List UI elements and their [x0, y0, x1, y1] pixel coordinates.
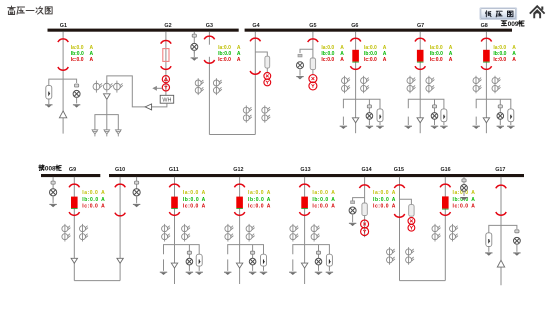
surge arrester G1 [46, 85, 52, 99]
svg-text:G3: G3 [206, 23, 213, 29]
voltage transformer G14 circle 1 [361, 220, 369, 228]
breaker G12 upper contact [234, 184, 244, 187]
surge arrester branch [508, 109, 514, 122]
svg-text:G5: G5 [309, 23, 316, 29]
svg-text:A: A [383, 57, 387, 63]
wire load branch bar [476, 99, 511, 109]
open-triangle contact on feeder [417, 118, 423, 123]
svg-text:G12: G12 [233, 167, 243, 173]
label 接008柜 [39, 165, 44, 171]
PT pair G11 left [162, 224, 171, 242]
wire load branch bar [228, 245, 264, 255]
feeder G2 wire [165, 32, 167, 96]
block symbol G14 branch [351, 201, 355, 204]
svg-text:Ic:0.0: Ic:0.0 [71, 57, 84, 63]
breaker G8 lower contact [481, 66, 491, 69]
label 至009柜 [501, 21, 506, 26]
indicator lamp branch [499, 99, 501, 125]
indicator lamp G1 [73, 90, 80, 97]
feeder G10 wire [119, 177, 121, 281]
svg-text:Ic:0.0: Ic:0.0 [312, 204, 328, 210]
svg-text:G4: G4 [252, 23, 259, 29]
disconnect stub with earth arrow [227, 259, 229, 271]
open triangle below PT group [104, 94, 111, 100]
svg-text:Ic:0.0: Ic:0.0 [218, 57, 231, 63]
svg-text:A: A [340, 57, 344, 63]
breaker G13 lower contact [299, 212, 309, 215]
PT pair G8 right [492, 76, 501, 93]
breaker G10 lower contact [115, 213, 125, 216]
G17 branch bar wire [489, 225, 517, 232]
svg-text:Ia:0.0: Ia:0.0 [493, 45, 506, 51]
svg-text:A: A [340, 45, 344, 51]
PT pair G13 right [311, 224, 320, 242]
svg-text:A: A [512, 57, 516, 63]
disconnect stub with earth arrow [475, 117, 477, 125]
svg-text:A: A [331, 204, 335, 210]
svg-text:A: A [471, 190, 475, 196]
svg-text:G7: G7 [417, 23, 424, 29]
PT pair G16 left [432, 224, 441, 242]
feeder G3 wire upper [208, 32, 210, 45]
svg-text:G6: G6 [351, 23, 358, 29]
breaker G6 closed element [352, 50, 359, 62]
voltage transformer G5 circle 1 [309, 75, 317, 83]
surge arrester branch [326, 254, 332, 266]
bus lamp branch left of G11 wire [136, 177, 138, 200]
fuse G14 [362, 203, 367, 216]
ground G17 lamp [516, 244, 518, 252]
svg-text:Ia:0.0: Ia:0.0 [321, 45, 334, 51]
bus lamp branch between G16 G17 wire [463, 177, 465, 196]
indicator lamp bus branch [191, 43, 198, 50]
feeder G3 wire lower [208, 57, 210, 135]
svg-text:A: A [331, 197, 335, 203]
voltage transformer G4 circle 2 [264, 79, 271, 86]
open-triangle contact on feeder [483, 118, 489, 123]
wire WH to PT group [107, 76, 167, 107]
voltage transformer G15 circle 1 [408, 218, 415, 225]
breaker G9 upper contact [69, 184, 79, 187]
svg-text:A: A [449, 45, 453, 51]
busbar top segment 2 [245, 29, 512, 32]
surge arrester G17 [486, 233, 492, 247]
svg-text:A: A [202, 197, 206, 203]
svg-text:A: A [267, 190, 271, 196]
feeder G1 wire [62, 32, 64, 134]
breaker G9 lower contact [69, 212, 79, 215]
svg-text:Ic:0.0: Ic:0.0 [430, 57, 443, 63]
open-triangle contact on feeder [236, 263, 242, 268]
svg-text:009: 009 [508, 21, 519, 28]
PT pair G7 left [407, 76, 416, 93]
PT pair G15 left [387, 247, 396, 265]
svg-text:Ib:0.0: Ib:0.0 [321, 51, 334, 57]
ground G1 arrester [48, 99, 50, 104]
PT pair G15 right [406, 247, 415, 265]
svg-text:Ia:0.0: Ia:0.0 [218, 45, 231, 51]
svg-text:G15: G15 [394, 167, 404, 173]
svg-text:Ia:0.0: Ia:0.0 [430, 45, 443, 51]
feeder G4 wire [254, 32, 256, 135]
surge arrester array c [116, 130, 122, 137]
surge arrester branch [377, 109, 383, 122]
G1 branch bar wire [49, 79, 77, 85]
indicator lamp branch [252, 245, 254, 271]
fuse G15 [409, 205, 414, 217]
indicator lamp G17 [514, 237, 521, 244]
breaker G2 open element [163, 49, 169, 62]
feeder G15 wire [399, 177, 401, 281]
indicator lamp branch [434, 99, 436, 125]
breaker G2 upper contact [161, 40, 171, 43]
ground G1 lamp [76, 97, 78, 103]
breaker G17 lower contact [496, 212, 506, 215]
svg-text:WH: WH [162, 98, 171, 104]
open-triangle contact on feeder [171, 263, 177, 268]
svg-text:Ic:0.0: Ic:0.0 [493, 57, 506, 63]
PT circle G2-b [103, 81, 112, 93]
indicator lamp branch [318, 245, 320, 271]
feeder G5 wire [312, 32, 314, 76]
svg-text:A: A [383, 45, 387, 51]
metering transformer G2 circle 1 [162, 76, 169, 83]
svg-text:008: 008 [45, 166, 56, 173]
ground G11 branch [136, 196, 138, 203]
breaker G4 upper contact [250, 38, 260, 41]
PT pair G3 left [195, 78, 204, 95]
disconnect dots G1 lamp branch [75, 84, 79, 87]
feeder G12 wire [239, 177, 241, 284]
feeder G17 wire [500, 177, 502, 285]
svg-text:Ia:0.0: Ia:0.0 [183, 190, 199, 196]
svg-text:Ia:0.0: Ia:0.0 [248, 190, 264, 196]
svg-text:A: A [90, 51, 94, 57]
surge arrester branch [196, 254, 202, 266]
svg-text:Ib:0.0: Ib:0.0 [312, 197, 328, 203]
breaker G7 lower contact [415, 66, 425, 69]
svg-text:G9: G9 [69, 167, 76, 173]
breaker G7 closed element [417, 50, 424, 62]
open triangle G10 feeder [117, 258, 123, 263]
bus lamp branch between G2 G3 wire [193, 32, 195, 54]
svg-text:A: A [449, 51, 453, 57]
disconnect dots G11 branch [135, 181, 139, 184]
PT fuse branch wire G15 [400, 199, 412, 204]
svg-text:Ib:0.0: Ib:0.0 [218, 51, 231, 57]
open triangle G9 feeder [71, 258, 77, 263]
svg-text:G1: G1 [60, 23, 67, 29]
indicator lamp G9 branch [50, 189, 57, 196]
svg-text:A: A [512, 45, 516, 51]
svg-text:G17: G17 [495, 167, 505, 173]
busbar bottom segment 1 [41, 174, 100, 177]
svg-text:A: A [512, 51, 516, 57]
svg-text:G11: G11 [169, 167, 179, 173]
svg-text:A: A [331, 190, 335, 196]
feeder G13 wire [304, 177, 306, 284]
breaker G14 upper contact [359, 185, 369, 188]
PT pair G11 right [182, 224, 191, 242]
delta winding G17 [497, 260, 504, 267]
svg-text:A: A [237, 51, 241, 57]
breaker G17 upper contact [496, 185, 506, 188]
PT circle G2-c [114, 81, 123, 93]
svg-text:G14: G14 [361, 167, 371, 173]
svg-text:A: A [340, 51, 344, 57]
ground G16 branch [460, 197, 467, 200]
ground bus lamp branch [193, 50, 195, 57]
tie wire G3 to G4 [209, 134, 255, 136]
svg-text:A: A [237, 57, 241, 63]
home icon [530, 6, 545, 18]
PT pair G9 right [80, 224, 89, 242]
svg-text:A: A [90, 57, 94, 63]
indicator lamp branch [368, 99, 370, 125]
wire load branch bar [408, 99, 444, 109]
breaker G11 closed element [171, 197, 178, 208]
svg-text:A: A [202, 190, 206, 196]
button 低压图 [480, 8, 517, 20]
open-triangle contact on feeder [352, 118, 358, 123]
svg-text:G16: G16 [440, 167, 450, 173]
breaker G3 lower contact [204, 60, 214, 63]
breaker G7 upper contact [415, 38, 425, 41]
breaker G5 upper contact [308, 39, 318, 42]
PT pair G13 left [290, 224, 299, 242]
tie wire G15 to G16 [400, 280, 446, 282]
feeder G7 wire [419, 32, 421, 134]
svg-text:A: A [101, 204, 105, 210]
svg-text:Ib:0.0: Ib:0.0 [364, 51, 377, 57]
block symbol G5 branch [298, 54, 302, 57]
lamp branch wire G14 [353, 198, 365, 202]
svg-text:Ia:0.0: Ia:0.0 [364, 45, 377, 51]
svg-text:A: A [392, 197, 396, 203]
svg-text:Ib:0.0: Ib:0.0 [493, 51, 506, 57]
voltage transformer G15 circle 2 [408, 224, 415, 231]
busbar top segment 1 [48, 29, 239, 32]
svg-text:A: A [202, 204, 206, 210]
svg-text:Ic:0.0: Ic:0.0 [321, 57, 334, 63]
fuse G5 [310, 58, 315, 70]
breaker G11 lower contact [169, 212, 179, 215]
svg-text:G13: G13 [300, 167, 310, 173]
svg-text:A: A [449, 57, 453, 63]
PT pair G7 right [426, 76, 435, 93]
svg-text:G2: G2 [164, 23, 171, 29]
svg-text:Ib:0.0: Ib:0.0 [248, 197, 264, 203]
breaker G16 closed element [442, 196, 449, 208]
breaker G8 upper contact [481, 38, 491, 41]
voltage transformer G14 circle 2 [361, 228, 369, 236]
arrester array wires [106, 99, 108, 114]
disconnect dots G16 branch [462, 179, 466, 182]
svg-text:Ic:0.0: Ic:0.0 [82, 204, 98, 210]
svg-text:Ic:0.0: Ic:0.0 [183, 204, 199, 210]
indicator lamp branch [188, 245, 190, 271]
page title 高压一次图 [8, 6, 16, 14]
svg-text:A: A [383, 51, 387, 57]
tie wire G9 to G10 [74, 280, 120, 282]
breaker G15 lower contact [394, 214, 404, 217]
PT pair G4 left [243, 105, 252, 122]
voltage transformer G4 circle 1 [264, 73, 271, 80]
indicator lamp G16 branch [461, 185, 468, 192]
svg-text:A: A [392, 190, 396, 196]
svg-text:A: A [392, 204, 396, 210]
surge arrester array a [92, 130, 98, 137]
PT pair G4 right [262, 105, 271, 122]
svg-text:A: A [101, 190, 105, 196]
wire load branch bar [343, 99, 380, 109]
surge arrester branch [441, 109, 447, 122]
breaker G15 upper contact [394, 185, 404, 188]
meter WH box [160, 95, 174, 103]
svg-text:Ia:0.0: Ia:0.0 [71, 45, 84, 51]
PT fuse branch wire G4 [255, 52, 267, 56]
surge arrester array b [104, 130, 110, 137]
svg-text:Ia:0.0: Ia:0.0 [82, 190, 98, 196]
voltage transformer G5 circle 2 [309, 82, 317, 90]
PT pair G16 right [450, 224, 459, 242]
svg-text:Ia:0.0: Ia:0.0 [373, 190, 389, 196]
svg-text:A: A [471, 204, 475, 210]
surge arrester branch [261, 254, 267, 266]
indicator lamp G5 branch [297, 62, 304, 69]
breaker G13 upper contact [299, 184, 309, 187]
breaker G12 closed element [236, 197, 243, 208]
feeder G9 wire [73, 177, 75, 281]
svg-text:Ib:0.0: Ib:0.0 [82, 197, 98, 203]
svg-text:A: A [237, 45, 241, 51]
ground G14 branch [352, 214, 354, 222]
svg-text:Ib:0.0: Ib:0.0 [183, 197, 199, 203]
breaker G2 lower contact [161, 66, 171, 69]
lamp branch wire G5 [300, 49, 313, 53]
svg-text:A: A [267, 197, 271, 203]
ground G9 branch [52, 196, 54, 203]
svg-text:A: A [471, 197, 475, 203]
disconnect stub with earth arrow [407, 117, 409, 125]
svg-text:A: A [101, 197, 105, 203]
PT pair G6 right [361, 76, 370, 93]
disconnect stub with earth arrow [292, 259, 294, 271]
open-triangle contact on feeder [301, 263, 307, 268]
breaker G13 closed element [301, 197, 308, 208]
fuse G4 [265, 56, 270, 68]
busbar bottom segment 2 [109, 174, 524, 177]
breaker G11 upper contact [169, 184, 179, 187]
svg-text:Ib:0.0: Ib:0.0 [373, 197, 389, 203]
svg-text:A: A [90, 45, 94, 51]
feeder G16 wire [444, 177, 446, 281]
indicator lamp G11 branch [133, 189, 140, 196]
breaker G10 upper contact [115, 184, 125, 187]
breaker G1 upper contact [58, 39, 68, 42]
svg-text:Ic:0.0: Ic:0.0 [453, 204, 469, 210]
feeder G11 wire [174, 177, 176, 284]
breaker G16 upper contact [440, 184, 450, 187]
PT pair G3 right [213, 78, 222, 95]
disconnect dots bus lamp branch [192, 34, 196, 37]
svg-text:A: A [267, 204, 271, 210]
breaker G16 lower contact [440, 212, 450, 215]
ground G5 branch [299, 69, 301, 76]
svg-text:Ic:0.0: Ic:0.0 [373, 204, 389, 210]
breaker G3 upper contact [204, 36, 214, 39]
wire fuse to circles G4 [266, 68, 268, 73]
breaker G6 upper contact [350, 38, 360, 41]
indicator lamp G14 branch [349, 207, 356, 214]
breaker G9 closed element [71, 197, 78, 208]
signal arrow into WH circuit [145, 104, 151, 110]
wire load branch bar [293, 245, 330, 255]
breaker G6 lower contact [350, 66, 360, 69]
feeder G6 wire [355, 32, 357, 134]
ground G17 arrester [488, 247, 490, 252]
bus lamp branch left of G9 wire [52, 177, 54, 200]
svg-text:Ib:0.0: Ib:0.0 [430, 51, 443, 57]
disconnect dots G9 branch [51, 181, 55, 184]
PT pair G12 left [225, 224, 234, 242]
disconnect stub with earth arrow [342, 117, 344, 125]
PT pair G12 right [246, 224, 255, 242]
PT circle G2-a [93, 81, 102, 93]
breaker G4 lower contact [250, 71, 260, 74]
svg-text:Ic:0.0: Ic:0.0 [364, 57, 377, 63]
PT pair G6 left [342, 76, 351, 93]
wire load branch bar [164, 245, 200, 255]
svg-text:G8: G8 [481, 23, 488, 29]
svg-text:Ic:0.0: Ic:0.0 [248, 204, 264, 210]
breaker G8 closed element [483, 50, 490, 62]
feeder G14 wire [364, 177, 366, 237]
PT pair G8 left [473, 76, 482, 93]
disconnect dots G17 lamp branch [515, 230, 519, 233]
breaker G1 lower contact [58, 67, 68, 70]
PT pair G9 left [62, 224, 71, 242]
svg-text:G10: G10 [115, 167, 125, 173]
disconnect stub with earth arrow [163, 259, 165, 271]
delta winding G1 [59, 111, 66, 118]
feeder G8 wire [485, 32, 487, 134]
breaker G12 lower contact [234, 212, 244, 215]
svg-text:Ia:0.0: Ia:0.0 [312, 190, 328, 196]
metering transformer G2 circle 2 [162, 84, 169, 91]
svg-text:Ib:0.0: Ib:0.0 [71, 51, 84, 57]
metering tap arrow G2 [156, 87, 162, 89]
